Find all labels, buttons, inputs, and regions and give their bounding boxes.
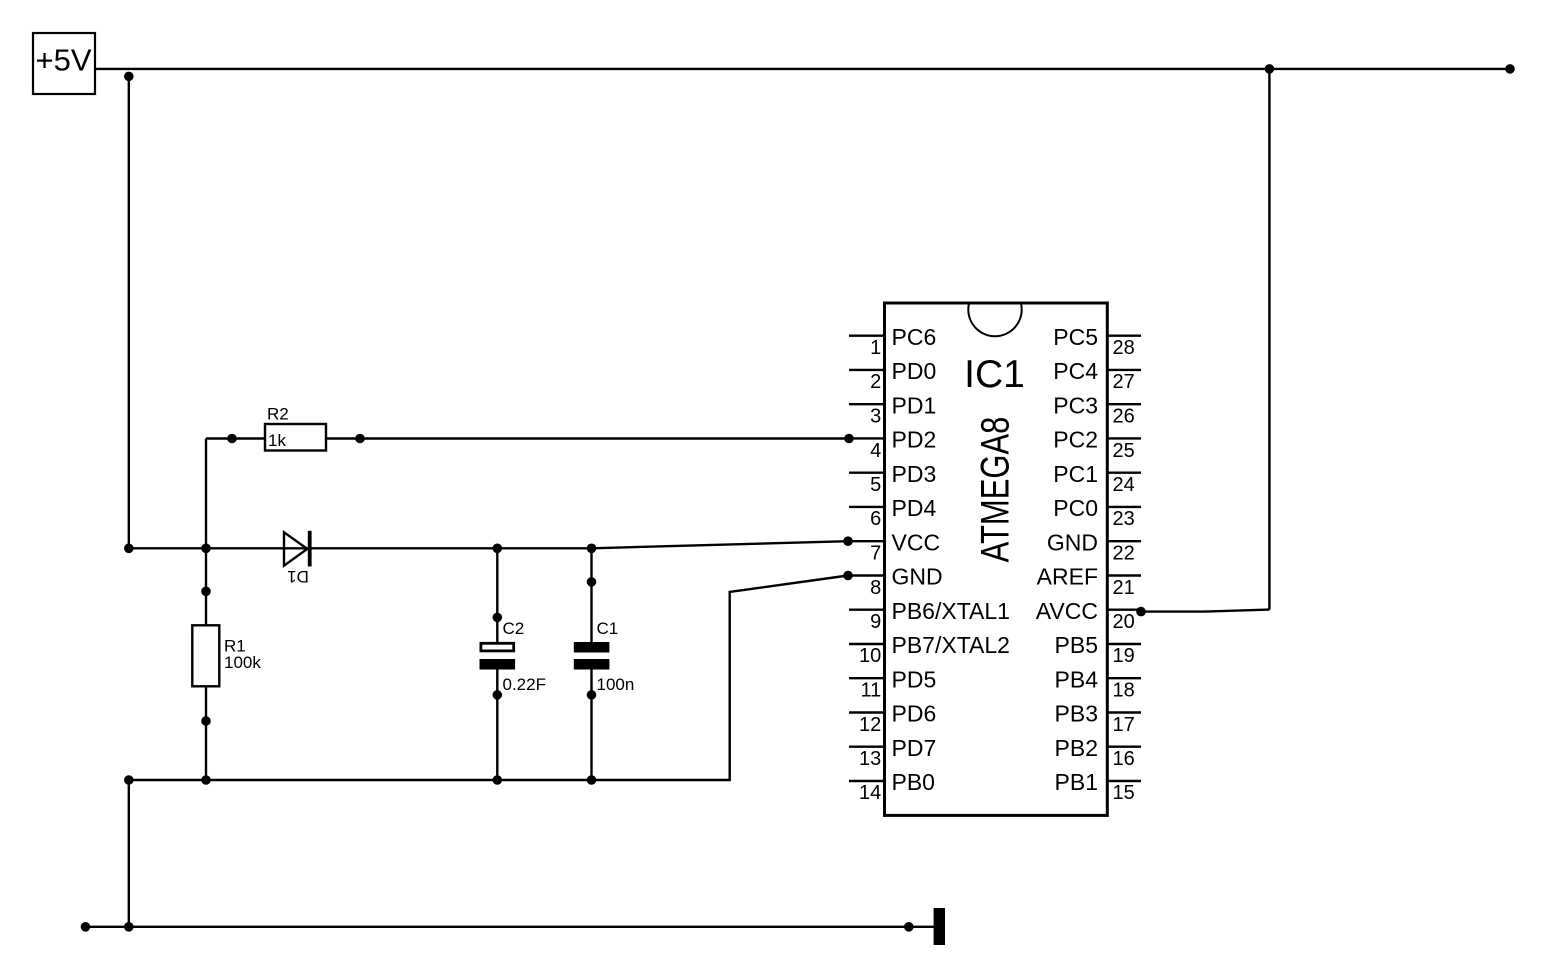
node junction GND rail x C2 column [493,775,503,785]
node junction GND rail x R1 column [201,775,211,785]
IC IC1 body [885,303,1108,815]
svg-text:1: 1 [870,337,881,359]
capacitor C1 top lead [590,548,592,644]
svg-text:PB3: PB3 [1055,701,1098,727]
node junction top-left [124,72,134,82]
svg-text:R2: R2 [267,405,289,424]
pin 23 stub (PC0) [1107,506,1141,508]
pin 16 stub (PB2) [1107,746,1141,748]
pin 11 stub (PD5) [849,677,884,679]
svg-text:PB6/XTAL1: PB6/XTAL1 [892,598,1010,624]
svg-text:24: 24 [1113,474,1135,496]
pin 4 stub (PD2) [849,437,884,439]
svg-text:PC4: PC4 [1053,358,1098,384]
node junction bottom rail [124,922,134,932]
svg-text:19: 19 [1113,645,1135,667]
node dot C1 pin 2 [587,690,597,700]
supply +5V box [33,33,95,94]
svg-text:25: 25 [1113,440,1135,462]
node junction GND rail x C1 column [587,775,597,785]
pin 15 stub (PB1) [1107,780,1141,782]
wire VCC net horizontal [129,547,592,549]
pin 5 stub (PD3) [849,472,884,474]
node dot R2 pin 1 [227,434,237,444]
capacitor C2 top lead [496,548,498,643]
pin 8 stub (GND) [849,574,884,576]
svg-text:AVCC: AVCC [1036,598,1098,624]
node dot GND rail left end [124,775,134,785]
pin 2 stub (PD0) [849,369,884,371]
node dot C1 pin 1 [587,577,597,587]
svg-text:PC3: PC3 [1053,392,1098,418]
node dot left end of VCC net [124,544,134,554]
svg-text:C1: C1 [597,619,619,638]
wire +5V top rail [95,68,1510,70]
node dot at AVCC pin 20 [1136,607,1146,617]
svg-text:11: 11 [861,680,882,702]
svg-text:PB5: PB5 [1055,632,1098,658]
capacitor C2 bottom plate [480,659,516,670]
node dot at PD2 pin 4 [844,434,854,444]
svg-text:27: 27 [1113,371,1135,393]
node dot at GND pin 8 [843,571,853,581]
svg-text:PD1: PD1 [892,392,937,418]
wire AVCC vertical drop [1268,69,1270,610]
node dot C2 pin 1 [493,613,503,623]
svg-text:21: 21 [1113,577,1135,599]
ground symbol bar [934,908,945,945]
capacitor C1 bottom lead [590,668,592,780]
node junction top rail to AVCC drop [1265,64,1275,74]
svg-text:10: 10 [859,645,881,667]
capacitor C2 top plate (polarized, hollow) [481,643,514,651]
svg-text:PB4: PB4 [1055,666,1099,692]
svg-text:PD4: PD4 [892,495,937,521]
svg-text:GND: GND [892,564,943,590]
svg-text:17: 17 [1113,714,1135,736]
resistor R2 body [265,424,326,451]
pin 18 stub (PB4) [1107,677,1141,679]
svg-text:13: 13 [859,748,881,770]
svg-text:22: 22 [1113,543,1135,565]
svg-text:16: 16 [1113,748,1135,770]
pin 1 stub (PC6) [849,335,884,337]
svg-text:PB0: PB0 [892,769,935,795]
wire vertical from +5V junction down to VCC net [128,76,130,548]
svg-text:PD5: PD5 [892,666,937,692]
svg-text:6: 6 [870,508,881,530]
wire AVCC horizontal to pin 20 [1141,610,1269,612]
svg-text:23: 23 [1113,508,1135,530]
resistor R1 body [192,625,219,686]
svg-text:9: 9 [870,611,881,633]
svg-text:5: 5 [870,474,881,496]
pin 24 stub (PC1) [1107,472,1141,474]
svg-text:ATMEGA8: ATMEGA8 [973,417,1018,563]
node junction VCC x C1 column [587,544,597,554]
node dot R1 pin 1 [201,587,211,597]
svg-text:8: 8 [870,577,881,599]
svg-text:AREF: AREF [1037,564,1098,590]
node dot bottom rail left end [81,922,91,932]
pin 7 stub (VCC) [849,540,884,542]
svg-text:PB7/XTAL2: PB7/XTAL2 [892,632,1010,658]
pin 13 stub (PD7) [849,746,884,748]
pin 19 stub (PB5) [1107,643,1141,645]
IC IC1 notch [968,304,1021,337]
svg-text:PB1: PB1 [1055,769,1098,795]
svg-text:+5V: +5V [36,43,92,78]
node dot C2 pin 2 [493,690,503,700]
capacitor C2 bottom lead [496,668,498,780]
capacitor C1 bottom plate [574,659,610,670]
wire VCC diagonal to pin 7 [592,541,849,548]
svg-text:18: 18 [1113,680,1135,702]
pin 9 stub (PB6/XTAL1) [849,609,884,611]
pin 17 stub (PB3) [1107,711,1141,713]
pin 10 stub (PB7/XTAL2) [849,643,884,645]
pin 3 stub (PD1) [849,403,884,405]
svg-text:PC6: PC6 [892,324,937,350]
svg-text:PD7: PD7 [892,735,937,761]
wire GND vertical drop to bottom rail [128,780,130,927]
pin 28 stub (PC5) [1107,335,1141,337]
node dot near GND symbol [904,922,914,932]
wire GND net rail [129,576,848,781]
pin 20 stub (AVCC) [1107,609,1141,611]
svg-text:26: 26 [1113,406,1135,428]
svg-text:2: 2 [870,371,881,393]
svg-text:1k: 1k [268,431,286,450]
node dot R2 pin 2 [355,434,365,444]
svg-text:4: 4 [870,440,881,462]
svg-text:15: 15 [1113,782,1135,804]
svg-text:PD2: PD2 [892,427,937,453]
svg-text:D1: D1 [287,567,309,586]
svg-text:PD0: PD0 [892,358,937,384]
svg-text:100k: 100k [224,653,261,672]
node junction VCC x C2 column [493,544,503,554]
wire PD2 net horizontal [206,437,849,439]
node dot at VCC pin 7 [843,536,853,546]
capacitor C1 top plate [574,642,610,653]
svg-text:PD6: PD6 [892,701,937,727]
pin 6 stub (PD4) [849,506,884,508]
svg-text:PC1: PC1 [1053,461,1098,487]
svg-text:14: 14 [859,782,881,804]
node junction VCC x R1 column [201,544,211,554]
wire bottom GND rail [86,926,935,928]
diode D1 triangle [284,532,307,565]
svg-text:28: 28 [1113,337,1135,359]
svg-text:0.22F: 0.22F [503,675,546,694]
pin 26 stub (PC3) [1107,403,1141,405]
diode D1 cathode bar [308,531,312,567]
svg-text:PD3: PD3 [892,461,937,487]
svg-text:PB2: PB2 [1055,735,1098,761]
wire PD2 net vertical / R1 column [205,439,207,781]
pin 27 stub (PC4) [1107,369,1141,371]
wire end dot top right [1505,64,1515,74]
node dot R1 pin 2 [201,716,211,726]
svg-text:7: 7 [870,543,881,565]
svg-text:GND: GND [1047,529,1098,555]
svg-text:PC0: PC0 [1053,495,1098,521]
pin 12 stub (PD6) [849,711,884,713]
svg-text:3: 3 [870,406,881,428]
svg-text:PC2: PC2 [1053,427,1098,453]
svg-text:12: 12 [859,714,881,736]
svg-text:100n: 100n [597,675,635,694]
pin 25 stub (PC2) [1107,437,1141,439]
svg-text:VCC: VCC [892,529,941,555]
svg-text:PC5: PC5 [1053,324,1098,350]
svg-text:C2: C2 [503,619,525,638]
pin 22 stub (GND) [1107,540,1141,542]
pin 21 stub (AREF) [1107,574,1141,576]
svg-text:20: 20 [1113,611,1135,633]
svg-text:IC1: IC1 [964,353,1025,396]
pin 14 stub (PB0) [849,780,884,782]
